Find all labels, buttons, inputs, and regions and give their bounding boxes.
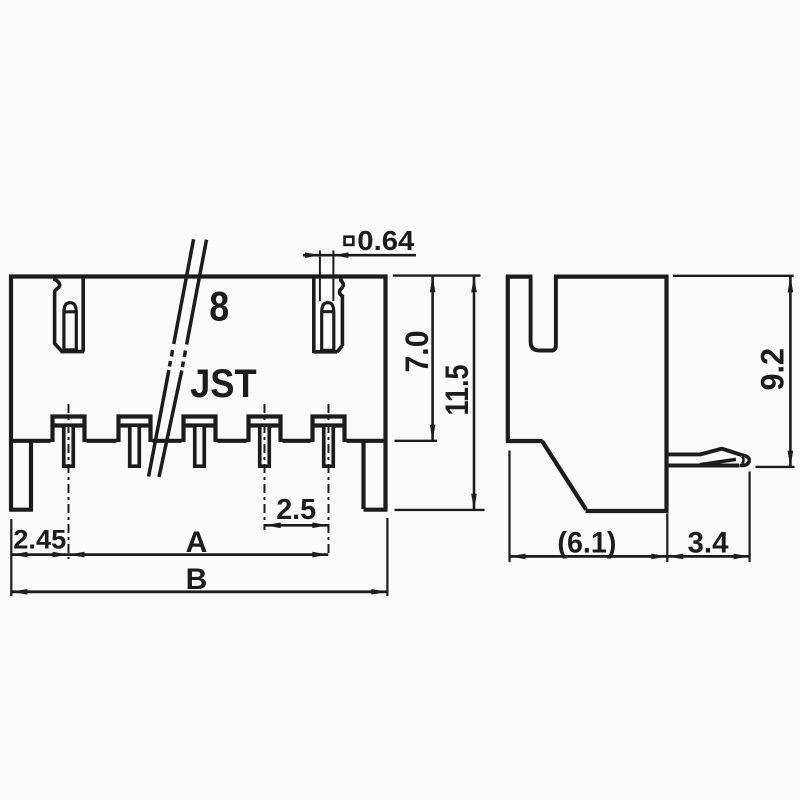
contact pin in left slot [64,303,76,351]
side view bottom diagonal [542,441,586,510]
pin boss 4 [249,417,281,443]
side view top edge [506,275,668,279]
pin boss 3 [184,417,216,443]
pin boss 5 [313,417,345,443]
svg-text:2.45: 2.45 [13,525,66,555]
pin 1 [64,427,74,466]
centerline pin 4 [264,404,266,530]
11.5 dimension line [473,276,476,510]
svg-text:7.0: 7.0 [399,331,435,373]
pin 5 [324,427,334,466]
svg-text:2.5: 2.5 [276,494,316,526]
side view bottom edge [586,509,669,513]
bottom extension lines [10,519,12,596]
(6.1) and 3.4 dimension line [510,555,750,558]
square symbol for 0.64 [345,237,354,245]
0.64 extension lines [320,251,334,302]
0.64 arrows [305,252,320,258]
0.64 dimension line [303,254,416,257]
svg-text:B: B [186,563,208,596]
diagonal break line right [159,240,207,477]
side view extension lines [508,451,510,563]
svg-text:8: 8 [209,283,229,330]
B dimension line [11,590,387,593]
front view housing right edge [383,275,387,510]
3.4 arrows [667,554,683,560]
front view housing left edge [9,275,13,510]
svg-text:A: A [186,526,208,559]
side view left edge [506,275,510,441]
side view bottom shelf [506,439,543,443]
right top slot [314,277,344,353]
svg-text:11.5: 11.5 [439,365,475,416]
bottom wall segments [9,439,388,443]
right mounting foot [364,440,388,510]
6.1 arrows [510,554,526,560]
2.45 and A dimension line [11,553,328,556]
svg-text:3.4: 3.4 [688,526,729,559]
svg-text:(6.1): (6.1) [557,527,616,560]
right side extension lines of front view [393,274,481,276]
7.0 dimension line [431,276,434,440]
side view top notch [531,277,556,351]
contact pin in right slot [322,303,334,352]
svg-text:0.64: 0.64 [357,225,414,256]
B arrows [11,589,27,595]
2.5 arrows [265,523,281,529]
pin 4 [260,427,270,466]
centerline pin 5 [328,404,330,557]
side view right edge [664,275,668,511]
solder pin side view [667,449,742,455]
7.0 arrows [430,276,436,292]
pin 3 [195,427,205,466]
svg-text:9.2: 9.2 [755,348,791,391]
centerline pin 1 [68,404,70,559]
arrowheads [11,252,793,594]
diagonal break line left [149,239,194,476]
11.5 arrows [471,276,477,292]
left top slot [55,277,85,352]
svg-text:JST: JST [190,362,257,406]
A arrows [69,552,85,558]
2.45 arrows [11,552,27,558]
left mounting foot [9,440,33,510]
pin boss 2 [119,417,151,443]
pin boss 1 [53,417,85,443]
2.5 dimension line [265,524,329,527]
9.2 extension lines [673,275,794,277]
front view housing top edge [9,274,388,278]
9.2 dimension line [789,276,792,466]
9.2 arrows [788,276,794,292]
pin 2 [130,427,140,466]
